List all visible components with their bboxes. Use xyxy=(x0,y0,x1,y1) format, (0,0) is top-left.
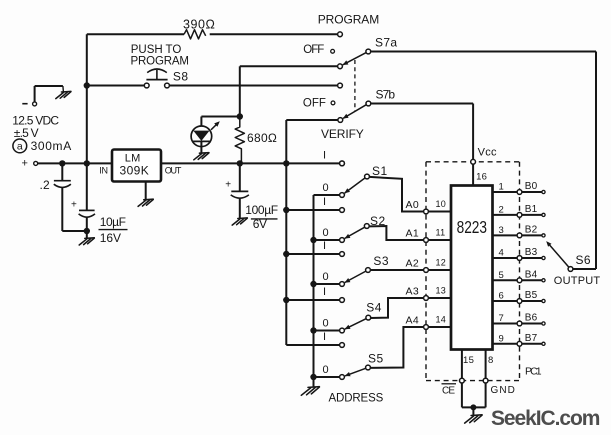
svg-text:A3: A3 xyxy=(406,286,420,298)
svg-text:0: 0 xyxy=(322,317,328,329)
svg-text:IN: IN xyxy=(99,166,108,176)
svg-text:0: 0 xyxy=(322,182,328,194)
svg-text:2: 2 xyxy=(499,205,504,216)
svg-text:OFF: OFF xyxy=(303,98,327,110)
svg-text:VERIFY: VERIFY xyxy=(321,127,364,141)
svg-text:B5: B5 xyxy=(525,290,538,301)
svg-text:S1: S1 xyxy=(372,164,388,178)
svg-text:S5: S5 xyxy=(368,352,384,366)
svg-text:15: 15 xyxy=(463,355,474,366)
svg-text:CE: CE xyxy=(442,386,455,397)
svg-text:SeekIC.com: SeekIC.com xyxy=(491,407,600,430)
svg-text:OUT: OUT xyxy=(165,166,182,176)
svg-text:10µF: 10µF xyxy=(100,215,127,229)
svg-text:0: 0 xyxy=(322,227,328,239)
svg-text:I: I xyxy=(323,286,326,298)
svg-text:S2: S2 xyxy=(370,214,386,228)
svg-text:a: a xyxy=(17,141,23,153)
svg-text:300mA: 300mA xyxy=(31,139,72,153)
svg-text:B7: B7 xyxy=(525,333,538,344)
svg-text:16V: 16V xyxy=(100,231,122,245)
svg-text:A1: A1 xyxy=(406,228,420,240)
svg-text:.2: .2 xyxy=(40,178,51,192)
svg-text:B6: B6 xyxy=(525,313,538,324)
svg-text:GND: GND xyxy=(491,385,516,396)
svg-text:4: 4 xyxy=(499,248,504,259)
svg-text:OUTPUT: OUTPUT xyxy=(554,275,601,287)
svg-text:7: 7 xyxy=(499,313,504,324)
svg-text:I: I xyxy=(323,331,326,343)
svg-text:PROGRAM: PROGRAM xyxy=(318,13,381,27)
svg-text:A4: A4 xyxy=(406,315,420,327)
svg-text:0: 0 xyxy=(322,364,328,376)
svg-text:S3: S3 xyxy=(373,254,389,268)
svg-text:8: 8 xyxy=(488,355,493,366)
svg-text:S7a: S7a xyxy=(375,35,398,49)
svg-text:6V: 6V xyxy=(253,217,268,231)
svg-text:680Ω: 680Ω xyxy=(247,131,278,145)
svg-text:+: + xyxy=(22,158,28,170)
svg-text:A2: A2 xyxy=(406,258,420,270)
svg-text:13: 13 xyxy=(436,285,447,295)
svg-text:11: 11 xyxy=(436,227,446,237)
svg-text:PUSH TO: PUSH TO xyxy=(131,44,183,56)
svg-text:ADDRESS: ADDRESS xyxy=(329,393,384,405)
svg-text:390Ω: 390Ω xyxy=(183,18,216,32)
svg-text:I: I xyxy=(323,240,326,252)
svg-text:100µF: 100µF xyxy=(245,203,278,217)
svg-text:S6: S6 xyxy=(576,253,591,267)
svg-text:+: + xyxy=(225,180,231,191)
svg-text:B4: B4 xyxy=(525,269,538,280)
svg-text:B3: B3 xyxy=(525,247,538,258)
svg-text:12: 12 xyxy=(436,257,447,267)
svg-text:PC1: PC1 xyxy=(525,366,542,378)
svg-text:3: 3 xyxy=(499,225,504,236)
svg-text:+: + xyxy=(71,200,77,211)
svg-text:5: 5 xyxy=(499,270,504,281)
svg-text:B1: B1 xyxy=(525,204,538,215)
svg-text:S7b: S7b xyxy=(376,88,396,102)
svg-text:A0: A0 xyxy=(406,199,420,211)
svg-text:OFF: OFF xyxy=(303,44,325,56)
svg-text:1: 1 xyxy=(499,182,504,193)
svg-text:±.5 V: ±.5 V xyxy=(14,126,39,140)
svg-text:0: 0 xyxy=(322,271,328,283)
svg-text:I: I xyxy=(323,196,326,208)
svg-text:Vcc: Vcc xyxy=(478,147,497,159)
svg-text:6: 6 xyxy=(499,291,504,302)
svg-text:S8: S8 xyxy=(173,69,189,83)
svg-text:9: 9 xyxy=(499,334,504,345)
svg-text:B2: B2 xyxy=(525,224,538,235)
svg-text:PROGRAM: PROGRAM xyxy=(131,55,191,67)
svg-text:10: 10 xyxy=(436,199,447,209)
svg-text:B0: B0 xyxy=(525,181,538,192)
svg-text:14: 14 xyxy=(436,314,447,324)
svg-text:309K: 309K xyxy=(120,164,150,178)
svg-text:I: I xyxy=(323,150,326,162)
svg-text:8223: 8223 xyxy=(457,218,488,237)
svg-text:16: 16 xyxy=(476,172,487,183)
svg-text:S4: S4 xyxy=(366,300,382,314)
